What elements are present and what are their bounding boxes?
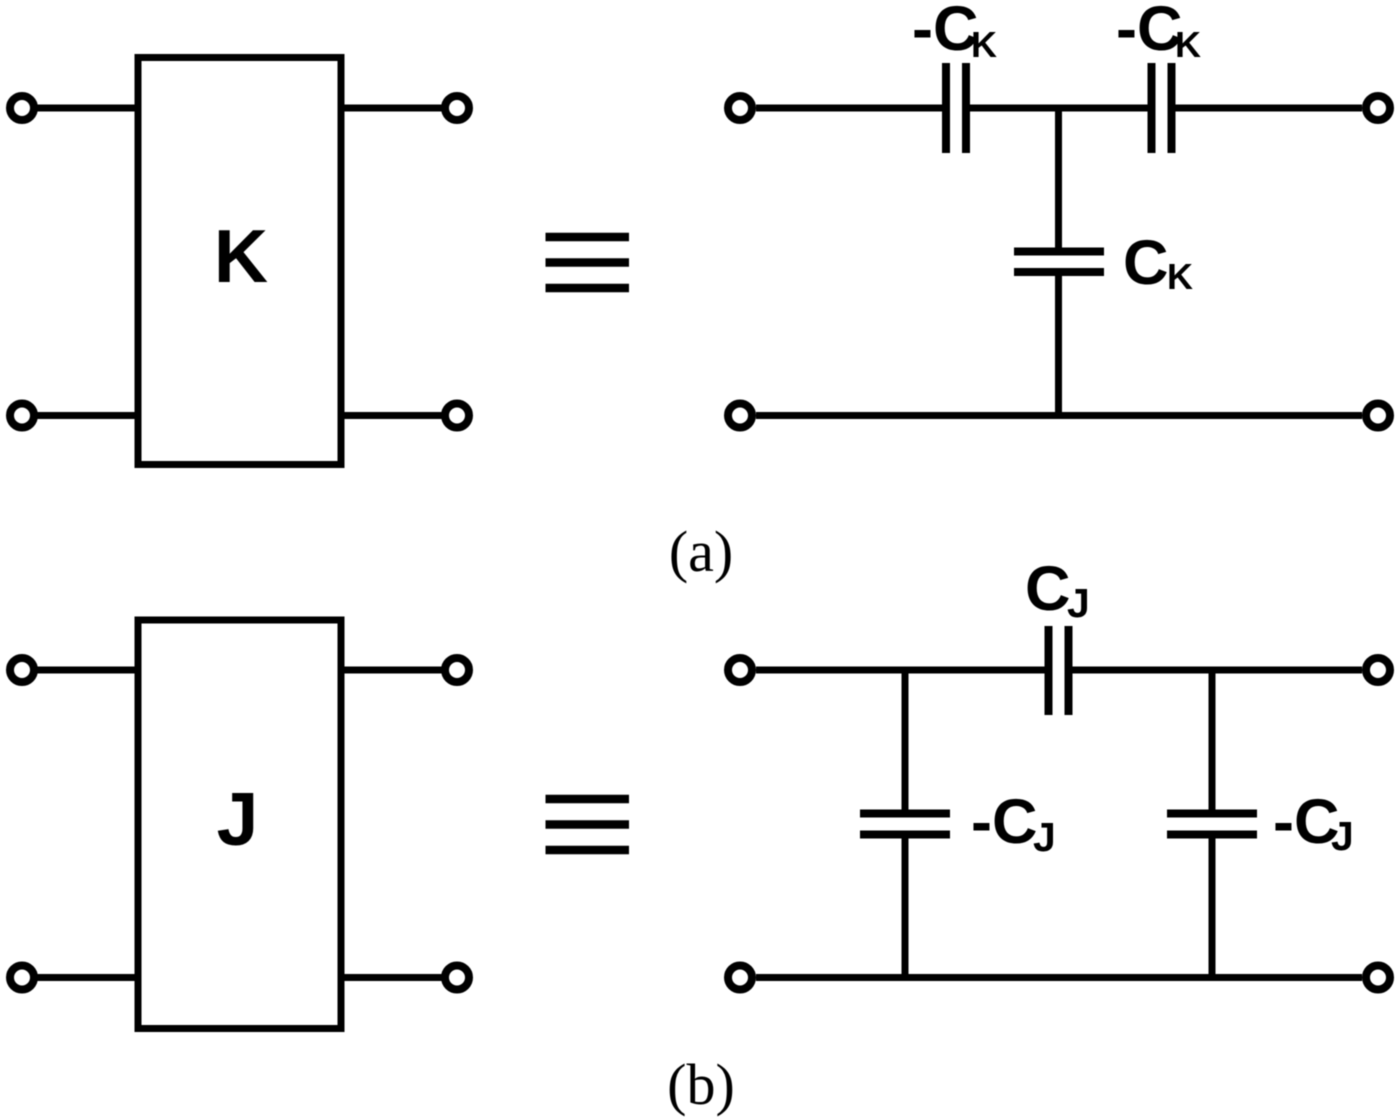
terminal J port4 [445,966,469,990]
capacitor CK shunt [1014,252,1104,273]
capacitor -CJ right shunt [1167,814,1257,835]
wire K port 4 [340,412,446,419]
svg-text:-C: -C [912,0,978,64]
terminal J port1 [10,658,34,682]
equivalence symbol a [546,233,630,242]
wire T junction down [1055,108,1062,248]
wire Pi-network bottom [756,974,1362,981]
terminal K port3 [10,404,34,428]
equivalence symbol b [546,795,630,804]
svg-text:J: J [1033,814,1056,860]
svg-text:J: J [1331,813,1354,859]
terminal Pi port4 [1366,966,1390,990]
terminal T port2 [1366,96,1390,120]
svg-text:C: C [1123,228,1169,298]
wire T-network bottom [756,412,1362,419]
svg-text:(a): (a) [669,519,733,584]
wire T-network top middle [970,105,1148,112]
terminal Pi port2 [1366,658,1390,682]
terminal Pi port3 [728,966,752,990]
wire T-network top right [1176,105,1363,112]
wire CK to bottom [1055,276,1062,416]
capacitor -CK series 1 [946,63,966,153]
svg-text:-C: -C [971,787,1037,857]
wire Pi left shunt upper [902,670,909,810]
wire J port 3 [32,974,140,981]
svg-text:(b): (b) [667,1052,735,1117]
svg-text:-C: -C [1116,0,1182,64]
svg-text:C: C [1025,554,1071,624]
terminal J port2 [445,658,469,682]
capacitor -CJ left shunt [860,814,950,835]
svg-text:-C: -C [1273,787,1339,857]
wire J port 1 [32,667,140,674]
wire J port 2 [340,667,446,674]
terminal T port1 [728,96,752,120]
two-port box J [138,620,341,1029]
svg-text:J: J [1067,580,1090,626]
wire K port 3 [32,412,140,419]
terminal Pi port1 [728,658,752,682]
wire Pi left shunt lower [902,838,909,978]
wire T-network top left [756,105,942,112]
capacitor -CK series 2 [1152,63,1172,153]
wire K port 1 [32,105,140,112]
terminal K port1 [10,96,34,120]
terminal K port2 [445,96,469,120]
svg-text:K: K [1175,24,1201,65]
capacitor CJ series [1049,626,1069,715]
svg-text:K: K [971,24,997,65]
terminal K port4 [445,404,469,428]
wire J port 4 [340,974,446,981]
two-port box K [138,58,341,465]
wire Pi right shunt lower [1209,838,1216,978]
terminal T port3 [728,404,752,428]
wire Pi-network top left [756,667,1045,674]
wire Pi-network top right [1073,667,1363,674]
wire K port 2 [340,105,446,112]
wire Pi right shunt upper [1209,670,1216,810]
svg-text:K: K [214,214,268,298]
svg-text:J: J [217,777,259,861]
terminal J port3 [10,966,34,990]
svg-text:K: K [1167,256,1193,297]
terminal T port4 [1366,404,1390,428]
